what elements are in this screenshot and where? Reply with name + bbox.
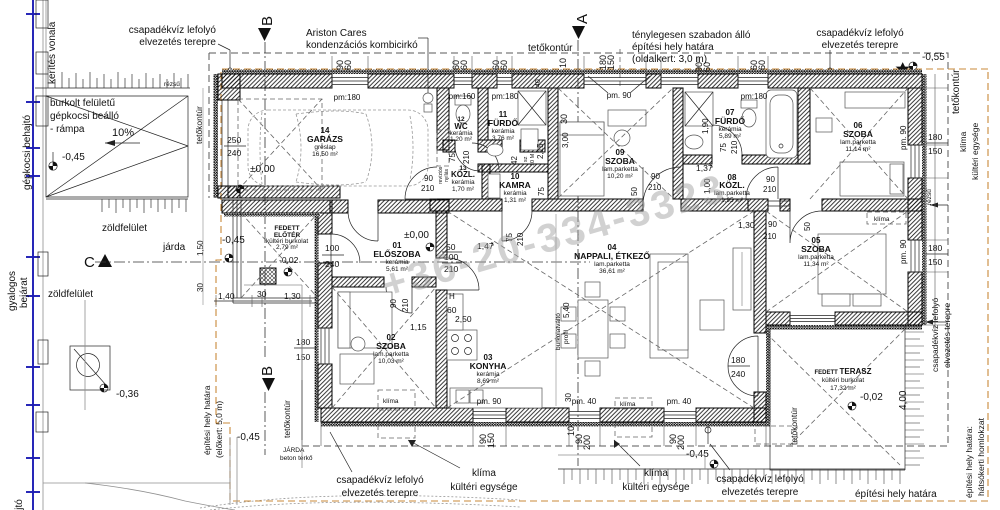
room 10 kamra [499,172,531,204]
svg-text:pm. 90: pm. 90 [899,239,908,264]
furdo11 sink [487,144,503,156]
room 11 furdo [488,110,519,142]
entry top wall [330,200,348,213]
svg-text:gépkocsi beálló: gépkocsi beálló [50,111,119,122]
konyha door [447,258,479,290]
garage-entry door [348,211,378,241]
nappali east wall [754,211,766,333]
bottom windows [473,408,696,422]
svg-text:hátsókerti homlokzat: hátsókerti homlokzat [976,417,986,496]
svg-text:csapadékvíz lefolyó: csapadékvíz lefolyó [336,475,424,486]
blue tick marks [26,14,40,492]
room 08 kozl [714,173,750,204]
svg-text:greslap: greslap [314,144,336,151]
svg-text:-0,45: -0,45 [237,432,260,443]
svg-text:90: 90 [766,175,775,184]
top rotated dims [335,55,767,124]
room diagonal dashed braces [447,211,754,408]
svg-text:elvezetés terepre: elvezetés terepre [139,37,216,48]
svg-text:elvezetés terepre: elvezetés terepre [822,40,899,51]
svg-text:SZOBA: SZOBA [376,341,406,351]
level -0,45 on ramp [49,152,57,170]
szoba09 door [643,167,681,205]
svg-text:bejárat: bejárat [19,277,30,308]
svg-text:16,50 m²: 16,50 m² [312,151,338,158]
svg-text:180: 180 [731,355,745,365]
svg-text:pm:160: pm:160 [449,92,476,101]
svg-text:-0,45: -0,45 [222,235,245,246]
svg-text:±0,00: ±0,00 [250,164,275,175]
svg-text:150: 150 [606,55,616,70]
reviziós nyilas dashed [437,130,449,166]
svg-text:- rámpa: - rámpa [50,124,85,135]
fence/property blue line [32,0,34,510]
svg-text:klíma: klíma [874,216,890,223]
kamra shelf [488,174,500,198]
svg-text:1,20 m²: 1,20 m² [450,136,473,143]
szoba09 west wall [548,88,558,199]
svg-text:FÜRDŐ: FÜRDŐ [488,117,519,128]
svg-text:8,69 m²: 8,69 m² [477,378,500,385]
svg-text:B: B [259,16,276,26]
svg-text:200: 200 [676,435,686,450]
apron comb bottom [558,468,905,470]
furdo07 shower [685,92,713,126]
insulation stipple bottom [321,422,770,427]
svg-text:240: 240 [325,259,339,269]
svg-text:burkolatváltó: burkolatváltó [555,313,562,350]
svg-text:42: 42 [510,156,519,165]
klima dashed boxes [378,390,415,410]
svg-text:pm. 40: pm. 40 [572,397,597,406]
svg-text:kerámia: kerámia [491,128,515,135]
room 05 szoba [798,236,834,268]
svg-text:rézsű: rézsű [164,81,180,88]
szoba06 bed [840,162,904,196]
room 03 konyha [470,353,507,385]
svg-text:90: 90 [768,220,777,229]
svg-text:járda: járda [162,242,186,253]
svg-text:-0,36: -0,36 [116,389,139,400]
svg-text:pm:180: pm:180 [741,92,768,101]
svg-text:tetőkontúr: tetőkontúr [528,43,573,54]
svg-text:csapadékvíz lefolyó: csapadékvíz lefolyó [716,474,804,485]
ramp outline [46,96,188,197]
svg-text:36,61 m²: 36,61 m² [599,268,625,275]
svg-text:kültéri egysége: kültéri egysége [622,482,690,493]
walkway lines bottom-left [230,285,302,505]
terrace roof dashed [766,329,905,465]
porch dim row [214,300,312,302]
curb gray line [43,0,46,510]
right wall segments [908,88,922,145]
svg-text:Ariston Cares: Ariston Cares [306,28,367,39]
szoba05 door [790,211,822,243]
furdo07 bathtub [766,90,797,158]
svg-text:ténylegesen szabadon álló: ténylegesen szabadon álló [632,30,751,41]
garage door in west wall [221,100,223,186]
svg-text:gépkocsi behajtó: gépkocsi behajtó [22,115,33,190]
garage inner door arc [405,167,437,199]
svg-text:zöldfelület: zöldfelület [48,289,93,300]
garage south wall [228,186,340,198]
furdo07 south wall [683,155,712,164]
svg-text:3,00: 3,00 [561,132,570,148]
svg-text:5,40: 5,40 [562,302,571,318]
room 06 szoba [840,121,876,153]
svg-text:KAMRA: KAMRA [499,180,531,190]
svg-text:pm. 90: pm. 90 [477,397,502,406]
insulation stipple garage west [214,74,219,198]
svg-text:90: 90 [424,174,433,183]
svg-text:10,20 m²: 10,20 m² [607,173,633,180]
svg-text:-0,55: -0,55 [922,52,945,63]
svg-text:10%: 10% [112,127,134,139]
szoba05 cabinet [733,248,751,310]
svg-text:210: 210 [421,184,435,193]
svg-text:GARÁZS: GARÁZS [307,134,343,144]
svg-text:NAPPALI, ÉTKEZŐ: NAPPALI, ÉTKEZŐ [574,250,650,261]
svg-text:pm:180: pm:180 [334,93,361,102]
svg-text:klíma: klíma [472,468,496,479]
svg-text:rézsű: rézsű [926,189,933,205]
svg-text:beton térkő: beton térkő [280,455,313,462]
svg-text:10,03 m²: 10,03 m² [378,358,404,365]
bottom wall under szoba05 [766,312,790,325]
svg-text:1,31 m²: 1,31 m² [504,197,527,204]
svg-text:H: H [449,292,455,301]
svg-text:4,00: 4,00 [898,390,909,410]
right dim extension line [934,74,936,330]
garage door swing dashed box [238,99,322,190]
entry door [331,234,360,263]
szoba02 desk [340,354,374,384]
svg-text:pm. 90: pm. 90 [899,125,908,150]
dim extension left of garage [202,88,204,305]
svg-text:60: 60 [702,62,712,72]
svg-text:lam.parketta: lam.parketta [602,166,638,173]
terrace slope comb right [905,332,924,465]
svg-text:klíma: klíma [383,398,399,405]
room 01 eloszoba [373,241,420,273]
svg-text:klíma: klíma [958,131,968,152]
svg-text:30: 30 [196,283,205,292]
furdo07 door [712,125,742,155]
svg-text:építési hely határa: építési hely határa [855,489,937,500]
szoba05 south window [790,312,835,325]
svg-text:kültéri burkolat: kültéri burkolat [822,377,864,384]
svg-text:kondenzációs kombicirkó: kondenzációs kombicirkó [306,40,418,51]
svg-text:A: A [574,14,591,24]
svg-text:kerámia: kerámia [718,126,742,133]
svg-text:lam.parketta: lam.parketta [798,254,834,261]
west wing wall segments [318,213,332,234]
svg-text:17,32 m²: 17,32 m² [830,385,856,392]
svg-text:sz: sz [523,156,529,162]
svg-text:pm:180: pm:180 [492,92,519,101]
svg-text:lam.parketta: lam.parketta [373,351,409,358]
furdo07 toilet [741,100,757,108]
furdo07 east wall [798,88,810,164]
svg-text:klíma: klíma [644,468,668,479]
room 12 wc [449,116,473,143]
furdo11 door [455,143,499,171]
porch pillar [260,268,276,284]
bottom wall segments [321,408,473,422]
coffee table [700,300,724,330]
svg-text:pm. 90: pm. 90 [607,91,632,100]
bottom window extension ticks [321,422,766,446]
szoba09 bed [560,122,604,196]
svg-text:behajtó: behajtó [14,499,25,510]
konyha divider wall [436,211,447,258]
ramp slope arrow 10% [105,142,140,144]
svg-text:210: 210 [763,185,777,194]
right wall windows [908,145,922,272]
svg-text:150: 150 [296,352,310,362]
svg-text:1,50: 1,50 [196,240,205,256]
green area ticks under ramp [46,198,188,200]
svg-text:210: 210 [730,140,739,154]
svg-text:építési hely határa: építési hely határa [202,385,212,455]
svg-text:kerámia: kerámia [451,179,475,186]
svg-text:150: 150 [486,433,496,448]
kamra north wall [478,164,548,172]
svg-text:1,30: 1,30 [284,291,301,301]
furdo07 sink [685,135,703,149]
svg-text:3,76 m²: 3,76 m² [492,135,515,142]
svg-text:lam.parketta: lam.parketta [840,139,876,146]
svg-text:kerámia: kerámia [503,190,527,197]
room 04 nappali [574,243,650,275]
insulation stipple right [922,74,927,325]
szoba02 north wall [332,277,384,287]
svg-text:1,15: 1,15 [410,322,427,332]
tree removal symbol [70,346,110,390]
svg-text:lam.parketta: lam.parketta [594,261,630,268]
garage west wall [218,74,240,100]
szoba06 wardrobe [845,92,905,108]
svg-text:200: 200 [582,435,592,450]
svg-text:240: 240 [731,369,745,379]
svg-text:210: 210 [763,232,777,241]
wc/furdo11 divider [478,88,488,140]
zoldfelulet area outline [43,300,230,483]
svg-text:csapadékvíz lefolyó: csapadékvíz lefolyó [816,28,904,39]
svg-text:B: B [259,366,276,376]
svg-text:-0,02: -0,02 [860,392,883,403]
svg-text:60: 60 [343,60,353,70]
svg-text:60: 60 [757,60,767,70]
porch dim ticks [216,295,310,307]
svg-text:1,30: 1,30 [738,220,755,230]
boiler [423,93,433,103]
svg-text:kerámia: kerámia [476,371,500,378]
fedett eloter [266,225,308,251]
szoba05 bed [818,234,886,294]
svg-text:30: 30 [564,393,573,402]
svg-text:40: 40 [535,79,542,87]
svg-text:építési hely határa:: építési hely határa: [964,426,974,498]
block middle h-wall (under wc/furdo11) [443,140,455,152]
svg-text:gyalogos: gyalogos [7,271,18,311]
apron line mid [558,455,705,469]
svg-text:11,34 m²: 11,34 m² [803,261,829,268]
svg-text:KÖZL.: KÖZL. [451,170,475,179]
svg-text:180: 180 [296,337,310,347]
svg-text:tetőkontúr: tetőkontúr [951,69,962,114]
insulation stipple west wing [315,213,319,422]
svg-text:elvezetés terepre: elvezetés terepre [342,488,419,499]
svg-text:FÜRDŐ: FÜRDŐ [715,115,746,126]
svg-text:burkolt felületű: burkolt felületű [50,98,115,109]
svg-text:240: 240 [227,148,241,158]
svg-text:1,70 m²: 1,70 m² [452,186,475,193]
svg-text:90: 90 [651,172,660,181]
svg-text:elvezetés terepre: elvezetés terepre [722,487,799,498]
svg-text:250: 250 [227,135,241,145]
svg-text:klíma: klíma [620,401,636,408]
svg-text:tetőkontúr: tetőkontúr [282,400,292,438]
fence post rects [36,0,48,432]
svg-text:75: 75 [448,153,457,162]
svg-text:2,50: 2,50 [455,314,472,324]
svg-text:elvezetés terepre: elvezetés terepre [942,303,952,368]
szoba02 door [386,287,412,313]
svg-text:SZOBA: SZOBA [843,129,873,139]
svg-text:kerítés vonala: kerítés vonala [47,21,58,84]
svg-text:KONYHA: KONYHA [470,361,507,371]
bottom rotated dims [478,426,686,450]
svg-text:60: 60 [459,60,469,70]
svg-text:FEDETT: FEDETT [274,225,299,232]
porch top band [222,200,332,213]
nappali sofa [650,254,688,358]
insulation stipple bottom-right [766,325,922,330]
konyha stove [447,330,477,360]
car [248,110,428,186]
szoba02 west window [318,328,332,364]
svg-text:60: 60 [447,305,457,315]
terrace outline [770,325,905,470]
svg-text:10: 10 [558,58,568,68]
insulation stipple top [222,70,922,75]
svg-text:SZOBA: SZOBA [801,244,831,254]
furdo11 washer [521,129,538,150]
section line C [95,261,590,263]
middle long wall [430,199,502,211]
konyha counter west [447,294,463,330]
svg-text:-0,45: -0,45 [62,152,85,163]
svg-text:30: 30 [559,114,569,124]
svg-text:tetőkontúr: tetőkontúr [194,106,204,144]
svg-text:60: 60 [499,60,509,70]
garage east wall [437,88,449,150]
svg-text:±0,00: ±0,00 [404,230,429,241]
svg-text:pm. 40: pm. 40 [667,397,692,406]
room 13 kozl [451,165,475,193]
room 14 garazs [307,126,343,158]
top window extension ticks [332,56,768,74]
svg-text:építési hely határa: építési hely határa [632,42,714,53]
szoba02 bed [338,292,392,348]
szoba09 desk+chair [608,110,646,126]
svg-text:5,89 m²: 5,89 m² [719,133,742,140]
fence hatch line with ticks [35,87,190,89]
top windows [332,74,768,88]
room 09 szoba [602,148,638,180]
svg-text:2,15: 2,15 [536,143,545,159]
szoba06 chair [816,118,832,132]
furdo11 shower [518,91,546,125]
room 02 szoba [373,333,409,365]
room 07 furdo [715,108,746,140]
svg-text:1,90: 1,90 [701,118,710,134]
szoba09 east wall [673,88,683,199]
svg-text:profil: profil [563,329,570,344]
svg-text:75: 75 [719,143,728,152]
kozl08 door right / szoba06 door [746,167,790,206]
svg-text:nyílás: nyílás [444,168,450,182]
svg-text:kültéri egysége: kültéri egysége [970,123,980,180]
svg-text:-0,02: -0,02 [279,255,299,265]
porch dashed diagonals [241,213,318,298]
building place boundary orange [216,69,988,501]
kamra west wall [482,164,490,199]
wc12 toilet [455,96,471,105]
svg-text:SZOBA: SZOBA [605,156,635,166]
insulation stipple terrace-west [766,329,771,422]
svg-text:50: 50 [803,222,812,231]
svg-text:zöldfelület: zöldfelület [102,223,147,234]
svg-text:11,14 m²: 11,14 m² [845,146,871,153]
svg-text:100: 100 [325,243,339,253]
porch outline [233,200,318,303]
ramp diagonals [46,96,188,197]
svg-text:kültéri egysége: kültéri egysége [450,482,518,493]
svg-text:1,40: 1,40 [218,291,235,301]
svg-text:210: 210 [462,150,471,164]
svg-text:-0,45: -0,45 [686,449,709,460]
svg-text:C: C [84,254,95,271]
fedett terasz [815,367,872,392]
top wall segments [222,74,332,88]
svg-text:2,79 m²: 2,79 m² [276,244,299,251]
svg-text:75: 75 [537,187,546,196]
terrace door [728,336,758,396]
roof contour dashed [209,53,948,446]
konyha counter bottom [450,388,542,408]
kamra door [502,211,532,241]
svg-text:csapadékvíz lefolyó: csapadékvíz lefolyó [129,25,217,36]
bottom driveway arcs [85,483,235,510]
nappali dining table [578,300,608,358]
